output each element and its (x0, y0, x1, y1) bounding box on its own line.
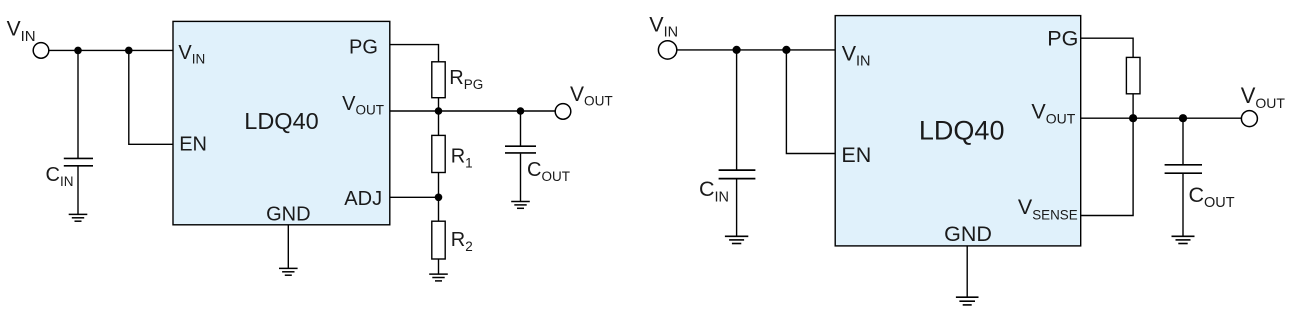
wire VOUT to R1 (438, 111, 440, 135)
wire GND pin to ground (left) (287, 225, 289, 269)
ground (below CIN right) (725, 236, 748, 243)
wire CIN to ground (77, 167, 79, 215)
wire PG to RPG (390, 45, 439, 62)
wire R1 to ADJ node (438, 173, 440, 198)
terminal VOUT (left output port) (555, 104, 571, 120)
resistor (PG pull-up, unlabeled) (1126, 57, 1140, 93)
wire COUT to ground (520, 154, 522, 202)
resistor R1 (432, 135, 445, 172)
wire down to CIN (right) (736, 50, 738, 170)
resistor RPG (432, 62, 445, 98)
wire GND pin to ground (right) (966, 246, 968, 297)
terminal VIN (left input port) (33, 43, 49, 59)
capacitor COUT (left) (505, 146, 536, 153)
ground (below COUT left) (511, 202, 530, 209)
wire EN branch (right) (786, 50, 835, 154)
IC U2 LDQ40 (right) (835, 16, 1080, 246)
svg-text:EN: EN (179, 134, 207, 156)
node junction VOUT/COUT (right) (1179, 114, 1187, 122)
terminal VIN (right input port) (658, 41, 676, 59)
wire VIN terminal to IC (right) (677, 49, 835, 51)
wire CIN to ground (right) (736, 179, 738, 236)
wire ADJ pin (390, 196, 439, 198)
capacitor CIN (right) (719, 170, 756, 179)
node junction VOUT/RPG/R1 (435, 107, 443, 115)
wire VSENSE feedback (1081, 118, 1133, 215)
capacitor CIN (left) (64, 158, 93, 165)
terminal VOUT (right output port) (1241, 111, 1257, 127)
wire ADJ node to R2 (438, 197, 440, 221)
ground (below GND pin right) (956, 297, 979, 305)
IC U1 LDQ40 (left) (173, 21, 390, 224)
svg-text:LDQ40: LDQ40 (919, 116, 1005, 146)
svg-text:EN: EN (841, 143, 871, 167)
svg-text:PG: PG (349, 37, 378, 59)
svg-text:PG: PG (1047, 26, 1078, 50)
wire down to CIN (77, 50, 79, 158)
node junction VOUT/COUT (517, 107, 525, 115)
capacitor COUT (right) (1165, 165, 1202, 173)
node junction (EN tap right) (782, 46, 790, 54)
node junction VOUT/resistor/VSENSE (1129, 114, 1137, 122)
wire VOUT rail (right) (1081, 117, 1242, 119)
svg-text:GND: GND (944, 222, 992, 246)
wire RPG to VOUT rail (438, 98, 440, 111)
resistor R2 (432, 221, 445, 259)
svg-text:GND: GND (266, 203, 310, 225)
wire EN branch (129, 50, 173, 144)
wire R2 to ground (438, 259, 440, 274)
svg-text:ADJ: ADJ (344, 188, 382, 210)
node junction (CIN tap) (74, 47, 82, 55)
node junction (EN tap) (125, 47, 133, 55)
wire PG to pull-up resistor (right) (1081, 38, 1133, 57)
wire VIN terminal to IC (49, 49, 173, 51)
ground (below GND pin left) (279, 268, 298, 275)
svg-text:LDQ40: LDQ40 (244, 108, 318, 134)
wire VOUT node to COUT (right) (1182, 118, 1184, 165)
wire COUT to ground (right) (1182, 174, 1184, 236)
node junction ADJ/R1/R2 (435, 194, 443, 202)
ground (below CIN left) (69, 214, 88, 221)
node junction (CIN tap right) (733, 46, 741, 54)
ground (below R2) (429, 274, 448, 281)
ground (below COUT right) (1172, 236, 1195, 243)
wire resistor to VOUT rail (right) (1132, 94, 1134, 118)
wire VOUT node to COUT (520, 111, 522, 146)
wire VOUT rail (left) (390, 110, 556, 112)
